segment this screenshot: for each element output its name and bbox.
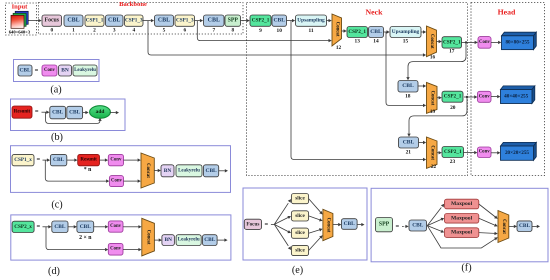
Focus block 0 bbox=[42, 15, 62, 26]
svg-text:80×80×255: 80×80×255 bbox=[505, 40, 529, 46]
svg-text:Conv: Conv bbox=[479, 40, 491, 45]
legend d wire eq to CBL bbox=[43, 225, 52, 228]
svg-text:Concat: Concat bbox=[334, 22, 339, 37]
legend c wire Resunit to Conv bbox=[100, 158, 109, 161]
output 20x20x255 bbox=[501, 142, 537, 160]
svg-text:Conv: Conv bbox=[110, 247, 122, 252]
svg-text:CBL: CBL bbox=[54, 224, 65, 230]
CBL block 14 bbox=[369, 27, 384, 38]
legend e slice-to-concat wires bbox=[309, 199, 323, 251]
legend e CBL bbox=[341, 219, 357, 230]
Concat block 22 bbox=[427, 137, 438, 168]
svg-text:CSP1_3: CSP1_3 bbox=[176, 18, 194, 24]
legend c Concat bbox=[141, 153, 154, 188]
CBL block 5 bbox=[155, 15, 174, 26]
legend c Conv top bbox=[108, 154, 123, 165]
legend c Resunit bbox=[78, 154, 100, 165]
svg-text:CBL: CBL bbox=[80, 224, 91, 230]
svg-text:CSP2_1: CSP2_1 bbox=[348, 29, 366, 35]
svg-text:Backbone: Backbone bbox=[119, 1, 147, 8]
svg-text:=: = bbox=[395, 223, 399, 230]
svg-text:Conv: Conv bbox=[44, 68, 56, 73]
legend d Conv top bbox=[108, 221, 123, 232]
svg-text:CBL: CBL bbox=[53, 157, 64, 163]
svg-text:=: = bbox=[36, 157, 40, 164]
svg-text:40×40×255: 40×40×255 bbox=[504, 94, 528, 100]
wire 4 to 5 bbox=[143, 19, 154, 22]
legend c CSP1_x bbox=[12, 154, 34, 165]
wire Concat12 to 13 bbox=[342, 29, 347, 32]
Upsampling block 15 bbox=[390, 27, 421, 38]
legend e fan wires bbox=[271, 199, 291, 250]
svg-text:Conv: Conv bbox=[110, 158, 122, 163]
svg-text:Focus: Focus bbox=[246, 221, 259, 227]
legend c Leakyrelu bbox=[176, 165, 202, 177]
svg-text:2: 2 bbox=[93, 27, 96, 33]
svg-text:BN: BN bbox=[164, 168, 172, 174]
svg-text:21: 21 bbox=[406, 149, 412, 155]
legend b out arrow bbox=[110, 111, 119, 114]
svg-text:Concat: Concat bbox=[501, 219, 506, 234]
legend b CBL 1 bbox=[50, 106, 66, 119]
wire 6 to Concat12 bbox=[197, 21, 331, 43]
legend e Concat bbox=[323, 209, 333, 240]
legend c Conv bottom bbox=[109, 176, 123, 187]
legend f out arrow bbox=[532, 225, 540, 228]
svg-text:BN: BN bbox=[164, 237, 172, 243]
svg-text:slice: slice bbox=[295, 196, 305, 202]
svg-text:Maxpool: Maxpool bbox=[451, 230, 473, 236]
svg-text:0: 0 bbox=[50, 27, 53, 33]
wire 11 to Concat12 bbox=[327, 19, 332, 22]
Concat block 12 bbox=[332, 14, 342, 46]
legend b frame bbox=[11, 99, 126, 131]
svg-text:1: 1 bbox=[72, 27, 75, 33]
svg-text:Leakyrelu: Leakyrelu bbox=[178, 168, 200, 173]
wire 21 to Concat22 bbox=[419, 141, 427, 144]
legend b wire CBL to add bbox=[83, 111, 89, 114]
svg-text:CSP1_3: CSP1_3 bbox=[125, 18, 143, 24]
CBL block 7 bbox=[204, 15, 225, 26]
legend d Conv bottom bbox=[108, 243, 123, 255]
head dashed frame bbox=[471, 3, 545, 176]
legend d BN bbox=[162, 235, 175, 246]
svg-text:CBL: CBL bbox=[52, 110, 63, 116]
svg-text:Conv: Conv bbox=[111, 179, 123, 184]
wire 4 to Concat16 bbox=[148, 21, 426, 57]
Conv head 1 bbox=[478, 37, 491, 49]
legend f frame bbox=[371, 188, 548, 261]
CSP2_1 block 17 bbox=[442, 37, 462, 48]
output 80x80x255 bbox=[502, 32, 537, 49]
legend c wire Conv2 to Concat bbox=[124, 179, 141, 182]
wire 20 to Conv2 bbox=[464, 95, 477, 98]
svg-text:11: 11 bbox=[308, 28, 313, 34]
wire Conv2 to out2 bbox=[491, 95, 500, 98]
svg-text:Concat: Concat bbox=[325, 218, 330, 233]
CSP1_3 block 6 bbox=[175, 15, 195, 26]
svg-text:SPP: SPP bbox=[379, 222, 390, 228]
legend c wire eq to CBL bbox=[43, 158, 51, 161]
CSP2_1 block 20 bbox=[442, 91, 463, 102]
svg-text:Focus: Focus bbox=[45, 18, 60, 24]
svg-text:(c): (c) bbox=[51, 199, 62, 210]
wire 10 to Concat22 bbox=[291, 21, 426, 162]
Upsampling block 11 bbox=[296, 15, 327, 26]
legend f Maxpool 1 bbox=[445, 199, 479, 209]
CSP1_3 block 4 bbox=[125, 15, 144, 26]
legend f Maxpool 2 bbox=[445, 214, 479, 224]
legend e concat to CBL bbox=[333, 223, 342, 226]
svg-text:Maxpool: Maxpool bbox=[451, 201, 473, 207]
svg-text:CBL: CBL bbox=[403, 140, 415, 146]
svg-text:* n: * n bbox=[84, 167, 92, 173]
svg-text:slice: slice bbox=[295, 230, 305, 236]
wire 8 to 9 bbox=[241, 19, 250, 22]
svg-text:=: = bbox=[265, 221, 269, 228]
svg-text:22: 22 bbox=[431, 164, 437, 170]
legend c wire Conv to Concat bbox=[124, 158, 141, 161]
svg-text:CSP2_1: CSP2_1 bbox=[444, 94, 462, 100]
svg-text:CBL: CBL bbox=[370, 29, 382, 35]
svg-text:slice: slice bbox=[295, 248, 305, 254]
legend f Concat bbox=[498, 211, 509, 243]
svg-text:CBL: CBL bbox=[402, 83, 414, 89]
svg-text:23: 23 bbox=[450, 159, 456, 165]
CSP2_1 block 9 bbox=[250, 15, 271, 26]
svg-text:CBL: CBL bbox=[206, 168, 217, 174]
legend c CBL out bbox=[203, 165, 218, 177]
legend c wire CBL to Resunit bbox=[67, 158, 78, 161]
svg-text:CBL: CBL bbox=[108, 18, 120, 24]
legend d wire Conv to Concat bbox=[123, 225, 142, 228]
svg-text:CSP1_1: CSP1_1 bbox=[86, 18, 104, 24]
CSP2_1 block 23 bbox=[442, 147, 464, 158]
legend e frame bbox=[243, 188, 367, 260]
svg-text:Concat: Concat bbox=[145, 163, 150, 178]
svg-text:CBL: CBL bbox=[519, 223, 530, 229]
svg-text:CBL: CBL bbox=[344, 221, 355, 227]
legend b Resunit bbox=[12, 106, 32, 118]
legend f CBL in bbox=[409, 220, 427, 231]
legend c CBL bbox=[50, 154, 66, 165]
svg-text:Upsampling: Upsampling bbox=[392, 29, 420, 35]
legend f fan wires bbox=[427, 204, 497, 248]
svg-text:(a): (a) bbox=[50, 84, 61, 95]
legend d frame bbox=[11, 215, 231, 260]
wire Conv3 to out3 bbox=[491, 151, 500, 154]
svg-text:Input: Input bbox=[12, 3, 29, 10]
CSP1_1 block 2 bbox=[85, 15, 104, 26]
legend c frame bbox=[11, 146, 231, 193]
backbone dashed frame bbox=[39, 3, 244, 35]
legend e Focus bbox=[244, 219, 261, 229]
wire 15 to Concat16 bbox=[421, 30, 426, 33]
svg-text:Concat: Concat bbox=[146, 230, 151, 245]
Conv head 2 bbox=[478, 91, 492, 102]
legend d CBL 1 bbox=[52, 221, 68, 233]
legend e slice 1 bbox=[291, 194, 308, 204]
svg-text:CSP2_1: CSP2_1 bbox=[443, 39, 461, 45]
legend b CBL 2 bbox=[67, 106, 83, 119]
CBL block 1 bbox=[64, 15, 83, 26]
legend d wire CBL2 to Conv bbox=[94, 225, 109, 228]
svg-text:Conv: Conv bbox=[479, 94, 491, 99]
legend e slice 4 bbox=[291, 245, 308, 255]
svg-text:Concat: Concat bbox=[429, 34, 434, 49]
legend d out to BN bbox=[154, 238, 162, 241]
legend e slice 2 bbox=[291, 211, 308, 221]
svg-text:CSP2_1: CSP2_1 bbox=[444, 149, 462, 155]
svg-text:20×20×255: 20×20×255 bbox=[505, 150, 529, 156]
CBL block 10 bbox=[272, 15, 287, 26]
svg-text:BN: BN bbox=[61, 68, 69, 74]
svg-text:CBL: CBL bbox=[67, 18, 79, 24]
svg-text:Head: Head bbox=[498, 8, 516, 17]
wire 20 to 21 bbox=[407, 97, 467, 137]
CBL block 21 bbox=[399, 137, 419, 148]
legend d out arrow bbox=[217, 238, 228, 241]
legend f eq arrow bbox=[402, 225, 409, 228]
wire 18 to Concat19 bbox=[418, 84, 426, 87]
svg-text:16: 16 bbox=[430, 54, 436, 60]
svg-text:14: 14 bbox=[373, 38, 379, 44]
svg-text:Upsampling: Upsampling bbox=[297, 18, 325, 24]
svg-text:6: 6 bbox=[183, 27, 186, 33]
svg-text:9: 9 bbox=[259, 28, 262, 34]
CBL block 3 bbox=[106, 15, 124, 26]
legend d wire Conv2 to Concat bbox=[123, 248, 142, 251]
svg-text:CBL: CBL bbox=[19, 68, 30, 74]
svg-text:640×640×3: 640×640×3 bbox=[9, 29, 31, 34]
legend d CSP2_x bbox=[12, 221, 34, 232]
svg-text:7: 7 bbox=[212, 27, 215, 33]
wire 23 to Conv3 bbox=[464, 151, 478, 154]
svg-text:19: 19 bbox=[430, 109, 436, 115]
legend c out to BN bbox=[154, 169, 161, 172]
svg-text:13: 13 bbox=[355, 38, 361, 44]
svg-text:3: 3 bbox=[113, 27, 116, 33]
svg-text:Conv: Conv bbox=[110, 224, 122, 229]
Conv head 3 bbox=[478, 147, 492, 158]
svg-text:Concat: Concat bbox=[429, 91, 434, 106]
svg-text:2 × n: 2 × n bbox=[79, 235, 92, 241]
legend d Concat bbox=[142, 218, 155, 256]
svg-text:(f): (f) bbox=[461, 263, 471, 274]
neck dashed frame bbox=[247, 3, 468, 176]
wire Concat16 to 17 bbox=[437, 40, 442, 43]
svg-text:Neck: Neck bbox=[366, 8, 384, 17]
svg-text:(b): (b) bbox=[51, 132, 63, 143]
svg-text:SPP: SPP bbox=[228, 18, 239, 24]
svg-text:CSP2_1: CSP2_1 bbox=[252, 18, 270, 24]
legend f Maxpool 3 bbox=[445, 228, 479, 238]
legend a Conv bbox=[42, 65, 57, 76]
svg-text:(e): (e) bbox=[292, 265, 303, 276]
svg-text:slice: slice bbox=[295, 213, 305, 219]
svg-text:15: 15 bbox=[403, 38, 409, 44]
Concat block 19 bbox=[427, 82, 438, 113]
SPP block 8 bbox=[225, 15, 241, 26]
legend c branch down bbox=[45, 160, 109, 183]
svg-text:8: 8 bbox=[231, 27, 234, 33]
wire 14 to Concat19 bbox=[386, 32, 426, 107]
legend a CBL bbox=[18, 65, 32, 76]
svg-text:20: 20 bbox=[450, 105, 456, 111]
svg-text:CSP2_x: CSP2_x bbox=[14, 224, 32, 230]
legend a frame bbox=[14, 60, 100, 82]
wire 17 to 18 bbox=[406, 42, 466, 80]
svg-text:Leakyrelu: Leakyrelu bbox=[74, 68, 96, 73]
legend d CBL out bbox=[203, 235, 218, 246]
output 40x40x255 bbox=[501, 86, 535, 104]
legend f maxpool-to-concat wires bbox=[479, 204, 498, 235]
wire 14 to 15 bbox=[384, 30, 390, 33]
legend a BN bbox=[59, 65, 72, 76]
svg-text:=: = bbox=[36, 223, 40, 230]
svg-text:CBL: CBL bbox=[412, 223, 423, 229]
legend a Leakyrelu bbox=[73, 65, 97, 76]
svg-text:17: 17 bbox=[449, 49, 455, 55]
legend c out arrow bbox=[219, 169, 228, 172]
svg-text:(d): (d) bbox=[48, 266, 60, 277]
svg-text:CBL: CBL bbox=[158, 18, 170, 24]
wire 17 to Conv1 bbox=[462, 41, 478, 44]
svg-text:CBL: CBL bbox=[208, 18, 220, 24]
legend b feedback bbox=[46, 112, 102, 123]
svg-text:Resunit: Resunit bbox=[80, 158, 97, 163]
svg-text:add: add bbox=[96, 109, 105, 115]
wire input to Focus bbox=[29, 19, 42, 22]
svg-text:Resunit: Resunit bbox=[14, 110, 31, 115]
wire 10 to 11 bbox=[287, 19, 296, 22]
legend d CBL 2 bbox=[77, 221, 94, 233]
svg-text:=: = bbox=[35, 109, 39, 116]
legend f SPP bbox=[376, 218, 393, 232]
svg-text:12: 12 bbox=[336, 45, 342, 51]
svg-text:Leakyrelu: Leakyrelu bbox=[178, 238, 200, 243]
svg-text:CBL: CBL bbox=[69, 110, 80, 116]
legend e out arrow bbox=[357, 223, 364, 226]
Concat block 16 bbox=[427, 26, 437, 57]
legend f CBL out bbox=[517, 221, 532, 232]
svg-text:18: 18 bbox=[405, 93, 411, 99]
legend f concat to CBL bbox=[509, 225, 517, 228]
input image stack bbox=[11, 11, 28, 28]
svg-text:CBL: CBL bbox=[204, 237, 215, 243]
svg-text:5: 5 bbox=[163, 27, 166, 33]
legend c BN bbox=[161, 165, 174, 177]
legend b wire eq to CBL bbox=[42, 111, 50, 114]
svg-text:CSP1_x: CSP1_x bbox=[14, 157, 32, 163]
input dashed frame bbox=[6, 3, 37, 35]
svg-text:=: = bbox=[35, 67, 39, 74]
wire Concat19 to 20 bbox=[437, 96, 442, 99]
legend d branch down bbox=[46, 227, 108, 252]
wire 6 to 7 bbox=[195, 19, 204, 22]
wire Concat22 to 23 bbox=[437, 151, 442, 154]
svg-text:CBL: CBL bbox=[273, 18, 285, 24]
legend e slice 3 bbox=[291, 228, 308, 238]
CBL block 18 bbox=[398, 81, 418, 93]
svg-text:Maxpool: Maxpool bbox=[451, 215, 473, 221]
svg-text:Concat: Concat bbox=[429, 145, 434, 160]
svg-text:Conv: Conv bbox=[479, 150, 491, 155]
wire Conv1 to out1 bbox=[491, 41, 501, 44]
legend d Leakyrelu bbox=[176, 235, 201, 246]
CSP2_1 block 13 bbox=[347, 27, 368, 38]
legend d wire CBL to CBL bbox=[68, 225, 77, 228]
svg-text:10: 10 bbox=[277, 28, 283, 34]
svg-text:4: 4 bbox=[132, 27, 135, 33]
